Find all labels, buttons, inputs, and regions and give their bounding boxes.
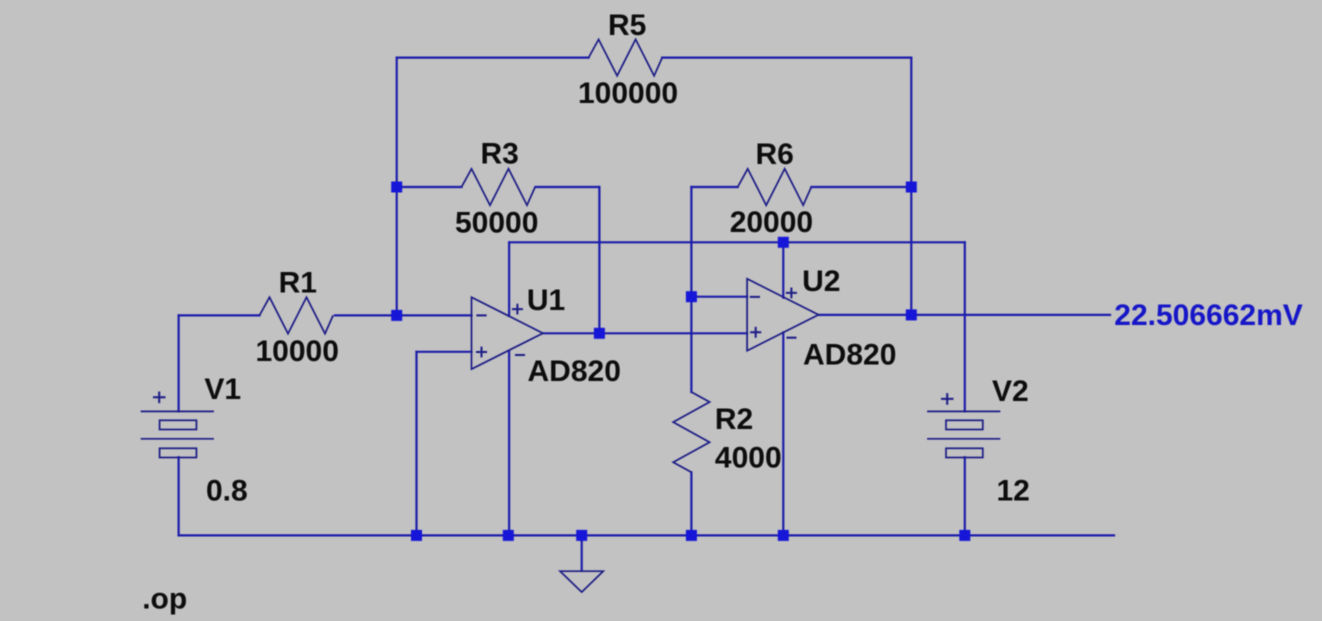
svg-text:AD820: AD820	[528, 355, 621, 388]
svg-text:R1: R1	[279, 266, 317, 299]
svg-text:R5: R5	[608, 9, 646, 42]
svg-text:10000: 10000	[256, 335, 339, 368]
svg-text:.op: .op	[142, 583, 187, 616]
svg-text:R6: R6	[756, 138, 794, 171]
svg-text:AD820: AD820	[803, 338, 896, 371]
svg-text:U1: U1	[527, 284, 565, 317]
svg-text:20000: 20000	[730, 206, 813, 239]
svg-text:4000: 4000	[715, 441, 782, 474]
svg-text:22.506662mV: 22.506662mV	[1114, 299, 1303, 332]
svg-text:0.8: 0.8	[206, 475, 248, 508]
svg-text:100000: 100000	[578, 77, 678, 110]
svg-text:U2: U2	[802, 265, 840, 298]
svg-text:R2: R2	[715, 403, 753, 436]
svg-text:12: 12	[997, 475, 1030, 508]
svg-text:V1: V1	[204, 373, 241, 406]
svg-text:V2: V2	[992, 375, 1029, 408]
svg-text:50000: 50000	[455, 207, 538, 240]
svg-text:R3: R3	[481, 138, 519, 171]
